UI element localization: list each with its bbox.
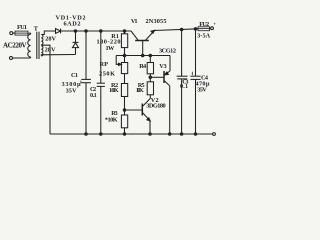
- terminal AC bottom: [10, 57, 13, 60]
- fuse FU1: [15, 31, 28, 35]
- transformer secondary winding lower: [41, 46, 43, 56]
- wire RP to R2: [124, 74, 126, 84]
- svg-text:FU2: FU2: [199, 21, 209, 28]
- node V1 base: [141, 54, 144, 57]
- wire secondary bottom lead: [41, 55, 75, 56]
- wire right rail: [155, 29, 199, 31]
- wire center tap down: [41, 45, 50, 134]
- capacitor C3: [181, 30, 183, 77]
- resistor R5: [147, 82, 153, 95]
- node C3 bottom: [180, 133, 183, 136]
- transformer core: [36, 32, 38, 59]
- capacitor C1: [85, 31, 87, 79]
- svg-text:0.1: 0.1: [90, 92, 97, 99]
- node C2 bottom: [100, 133, 103, 136]
- capacitor C4: [195, 29, 197, 76]
- resistor R4: [149, 56, 151, 63]
- transformer T primary winding: [28, 34, 31, 57]
- transistor V3 3CG12: [163, 71, 165, 83]
- svg-text:RP: RP: [100, 61, 109, 68]
- terminal AC top: [10, 32, 13, 35]
- V1 base wire: [142, 41, 144, 56]
- node C1 bottom: [85, 133, 88, 136]
- wire top rail: [61, 30, 131, 32]
- svg-text:35V: 35V: [197, 86, 207, 93]
- node V3 collector bottom: [168, 133, 171, 136]
- node R1 top: [123, 30, 126, 33]
- svg-text:0.1: 0.1: [180, 83, 188, 90]
- svg-text:R4: R4: [139, 63, 147, 70]
- node R1 bottom / RP top: [123, 54, 126, 57]
- svg-text:C1: C1: [71, 72, 78, 79]
- node R4 top: [149, 54, 152, 57]
- potentiometer RP: [121, 63, 127, 74]
- node C3 top: [180, 28, 183, 31]
- V2 emitter: [143, 113, 150, 121]
- transformer secondary winding upper: [41, 35, 43, 45]
- V2 base wire: [125, 109, 143, 111]
- svg-text:250K: 250K: [99, 71, 115, 78]
- C4 plus lead tick: [191, 72, 193, 75]
- node C2 top: [100, 30, 103, 33]
- node R3 bottom: [123, 133, 126, 136]
- svg-text:6AD2: 6AD2: [64, 20, 81, 27]
- resistor R2: [121, 84, 127, 97]
- svg-text:V1: V1: [131, 18, 138, 25]
- svg-text:3DG180: 3DG180: [146, 102, 166, 109]
- svg-text:28V: 28V: [45, 46, 56, 53]
- terminal output plus: [211, 27, 214, 30]
- svg-text:V3: V3: [159, 63, 166, 70]
- node rectifier output: [74, 30, 77, 33]
- V2 collector: [143, 99, 150, 106]
- terminal output minus: [213, 133, 216, 136]
- transistor V2 3DG180: [141, 104, 143, 116]
- svg-text:10K: 10K: [109, 87, 119, 94]
- transistor V1 2N3055: [135, 40, 149, 42]
- wire: [13, 57, 31, 59]
- bus wire of V1 base node: [116, 55, 170, 57]
- wire secondary top to rail: [41, 31, 55, 35]
- node R2/R3 junction: [123, 109, 126, 112]
- svg-text:3CG12: 3CG12: [159, 47, 176, 54]
- resistor R3: [121, 115, 127, 128]
- capacitor C2: [100, 31, 102, 83]
- wire VD2 to rail: [75, 31, 77, 42]
- RP wiper arrow: [116, 56, 120, 65]
- fuse FU2: [198, 27, 210, 31]
- wire bottom rail: [50, 133, 213, 135]
- svg-text:AC220V: AC220V: [3, 41, 27, 49]
- svg-text:+: +: [213, 21, 216, 27]
- diode VD2: [73, 43, 79, 48]
- svg-text:*10K: *10K: [105, 116, 118, 123]
- wire VD2 bottom: [75, 48, 77, 55]
- svg-text:3-5A: 3-5A: [197, 33, 211, 40]
- svg-text:1W: 1W: [106, 45, 116, 52]
- V3 base wire: [150, 76, 163, 78]
- wire: [13, 32, 15, 34]
- node R4/R5 junction: [149, 76, 152, 79]
- svg-text:2N3055: 2N3055: [146, 18, 167, 25]
- svg-text:FU1: FU1: [17, 24, 27, 31]
- diode VD1: [56, 29, 61, 34]
- svg-text:28V: 28V: [45, 35, 56, 42]
- svg-text:35V: 35V: [66, 88, 77, 95]
- node C4 top: [194, 28, 197, 31]
- node V2 emitter bottom: [149, 133, 152, 136]
- node C1 top: [85, 30, 88, 33]
- svg-text:10K: 10K: [136, 87, 144, 94]
- resistor R1: [124, 31, 126, 34]
- wire to primary top: [30, 33, 32, 34]
- node C4 bottom: [194, 133, 197, 136]
